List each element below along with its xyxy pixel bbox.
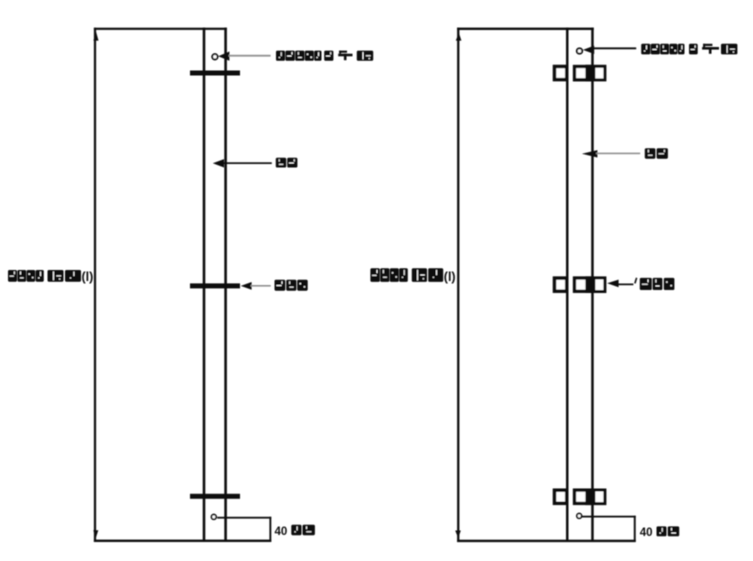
svg-text:40: 40 — [640, 527, 653, 539]
svg-text:(l): (l) — [444, 270, 456, 284]
svg-text:(l): (l) — [82, 270, 94, 284]
svg-text:40: 40 — [275, 526, 288, 538]
